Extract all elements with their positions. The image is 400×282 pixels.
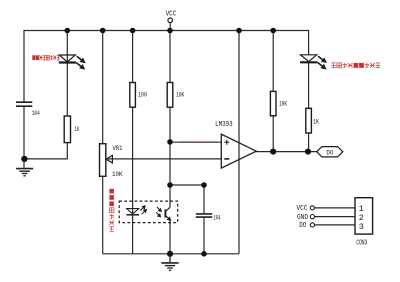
power symbol VCC circle bbox=[168, 18, 173, 23]
svg-text:VR1: VR1 bbox=[113, 145, 123, 152]
wire R4 10K bottom to output bbox=[272, 116, 274, 152]
wire VCC stub bbox=[169, 23, 171, 31]
wire LED D1 branch bbox=[66, 31, 68, 117]
svg-text:CON3: CON3 bbox=[356, 239, 367, 247]
pin circle DO bbox=[310, 223, 314, 227]
ground (left) bbox=[16, 169, 33, 176]
junction rail-VR1 bbox=[100, 28, 106, 34]
junction output-R5 bbox=[305, 149, 311, 155]
IR LED D3 bbox=[126, 206, 146, 215]
wire R3 to phototransistor collector bbox=[169, 107, 171, 207]
junction rail-R2 bbox=[130, 28, 136, 34]
phototransistor Q1 bbox=[156, 207, 170, 220]
svg-text:VCC: VCC bbox=[166, 10, 177, 18]
resistor R1 1K bbox=[64, 116, 70, 143]
svg-text:1K: 1K bbox=[313, 118, 319, 125]
svg-text:104: 104 bbox=[32, 110, 40, 117]
junction output-R4 bbox=[270, 149, 276, 155]
junction node A collector bbox=[167, 182, 173, 188]
wire R5 bottom to output bbox=[308, 133, 310, 152]
svg-text:GND: GND bbox=[297, 214, 308, 222]
LED D1 power indicator bbox=[59, 55, 85, 69]
junction rail-VCC bbox=[167, 28, 173, 34]
wire R2 100 top bbox=[132, 31, 134, 83]
wire net highlight tinge bbox=[180, 140, 218, 142]
wire VR1 top terminal bbox=[102, 31, 104, 144]
svg-text:VCC: VCC bbox=[297, 205, 308, 213]
junction rail-R4 bbox=[270, 28, 276, 34]
junction ground rail-C2 bbox=[201, 251, 207, 257]
junction node A capacitor C2 bbox=[201, 182, 207, 188]
wire pin 1 VCC bbox=[315, 207, 355, 209]
wire op-amp power VCC-to-GND vertical bbox=[238, 31, 240, 254]
wire LED D2 to R5 bbox=[308, 63, 310, 109]
svg-text:10K: 10K bbox=[176, 92, 184, 99]
wire op-amp non-inverting input bbox=[170, 141, 221, 143]
junction rail-D1 bbox=[65, 28, 71, 34]
svg-text:10K: 10K bbox=[279, 100, 287, 107]
annotation red text power indicator (電源インジケータ) bbox=[32, 55, 60, 60]
wire VR1 wiper to inverting input bbox=[108, 158, 221, 160]
pin circle VCC bbox=[310, 206, 314, 210]
resistor R3 10K bbox=[167, 83, 173, 108]
LED D2 switch indicator bbox=[300, 55, 326, 69]
capacitor C2 bbox=[196, 214, 212, 217]
svg-text:LM393: LM393 bbox=[215, 121, 233, 129]
wire R4 10K top bbox=[272, 31, 274, 92]
wire VR1 bottom terminal bbox=[102, 176, 104, 254]
svg-text:10K: 10K bbox=[112, 171, 123, 178]
resistor R5 1K bbox=[306, 108, 312, 133]
junction ground rail-emitter bbox=[167, 251, 173, 257]
resistor R2 100 bbox=[130, 83, 136, 108]
capacitor C1 bbox=[16, 102, 32, 106]
svg-text:104: 104 bbox=[213, 214, 221, 221]
annotation red text switch display (スイッチ表示します) bbox=[331, 63, 380, 68]
connector CON3 body bbox=[355, 198, 373, 234]
junction left ground node bbox=[21, 156, 27, 162]
potentiometer VR1 body bbox=[100, 144, 106, 177]
junction rail-power pin bbox=[236, 28, 242, 34]
wire pin 3 DO bbox=[315, 224, 355, 226]
wire capacitor C2 bottom lead bbox=[203, 218, 205, 254]
pin circle GND bbox=[310, 215, 314, 219]
output flag DO bbox=[317, 147, 343, 157]
wire pin 2 GND bbox=[315, 216, 355, 218]
wire phototransistor emitter to ground rail bbox=[169, 220, 171, 254]
svg-text:100: 100 bbox=[138, 92, 147, 99]
wire R3 10K top bbox=[169, 31, 171, 83]
op-amp U1 plus mark bbox=[224, 140, 229, 145]
wire left capacitor to ground node bbox=[23, 107, 25, 168]
annotation red text IR tube (赤外線チューブ) vertical bbox=[109, 189, 114, 232]
wire capacitor C2 top lead bbox=[203, 185, 205, 213]
junction non-inverting input node bbox=[167, 139, 173, 145]
ground (bottom center) bbox=[161, 254, 178, 270]
wire op-amp output to DO bbox=[256, 151, 317, 153]
op-amp U1 minus mark bbox=[224, 158, 229, 160]
svg-text:DO: DO bbox=[326, 149, 333, 156]
resistor R4 10K bbox=[270, 91, 276, 115]
op-amp U1 LM393 triangle bbox=[221, 134, 256, 168]
wire R2 to IR LED D3 bbox=[132, 107, 134, 254]
svg-text:DO: DO bbox=[299, 222, 306, 230]
wire ground node to R1 bottom bbox=[24, 143, 67, 159]
potentiometer VR1 wiper arrow bbox=[106, 155, 112, 163]
wire VCC top rail bbox=[24, 31, 309, 103]
wire bottom ground rail bbox=[103, 253, 239, 255]
svg-text:3: 3 bbox=[359, 222, 364, 232]
svg-text:1K: 1K bbox=[75, 126, 80, 133]
wire node A to capacitor C2 bbox=[170, 184, 204, 186]
photo-interrupter module dashed outline bbox=[119, 201, 178, 223]
